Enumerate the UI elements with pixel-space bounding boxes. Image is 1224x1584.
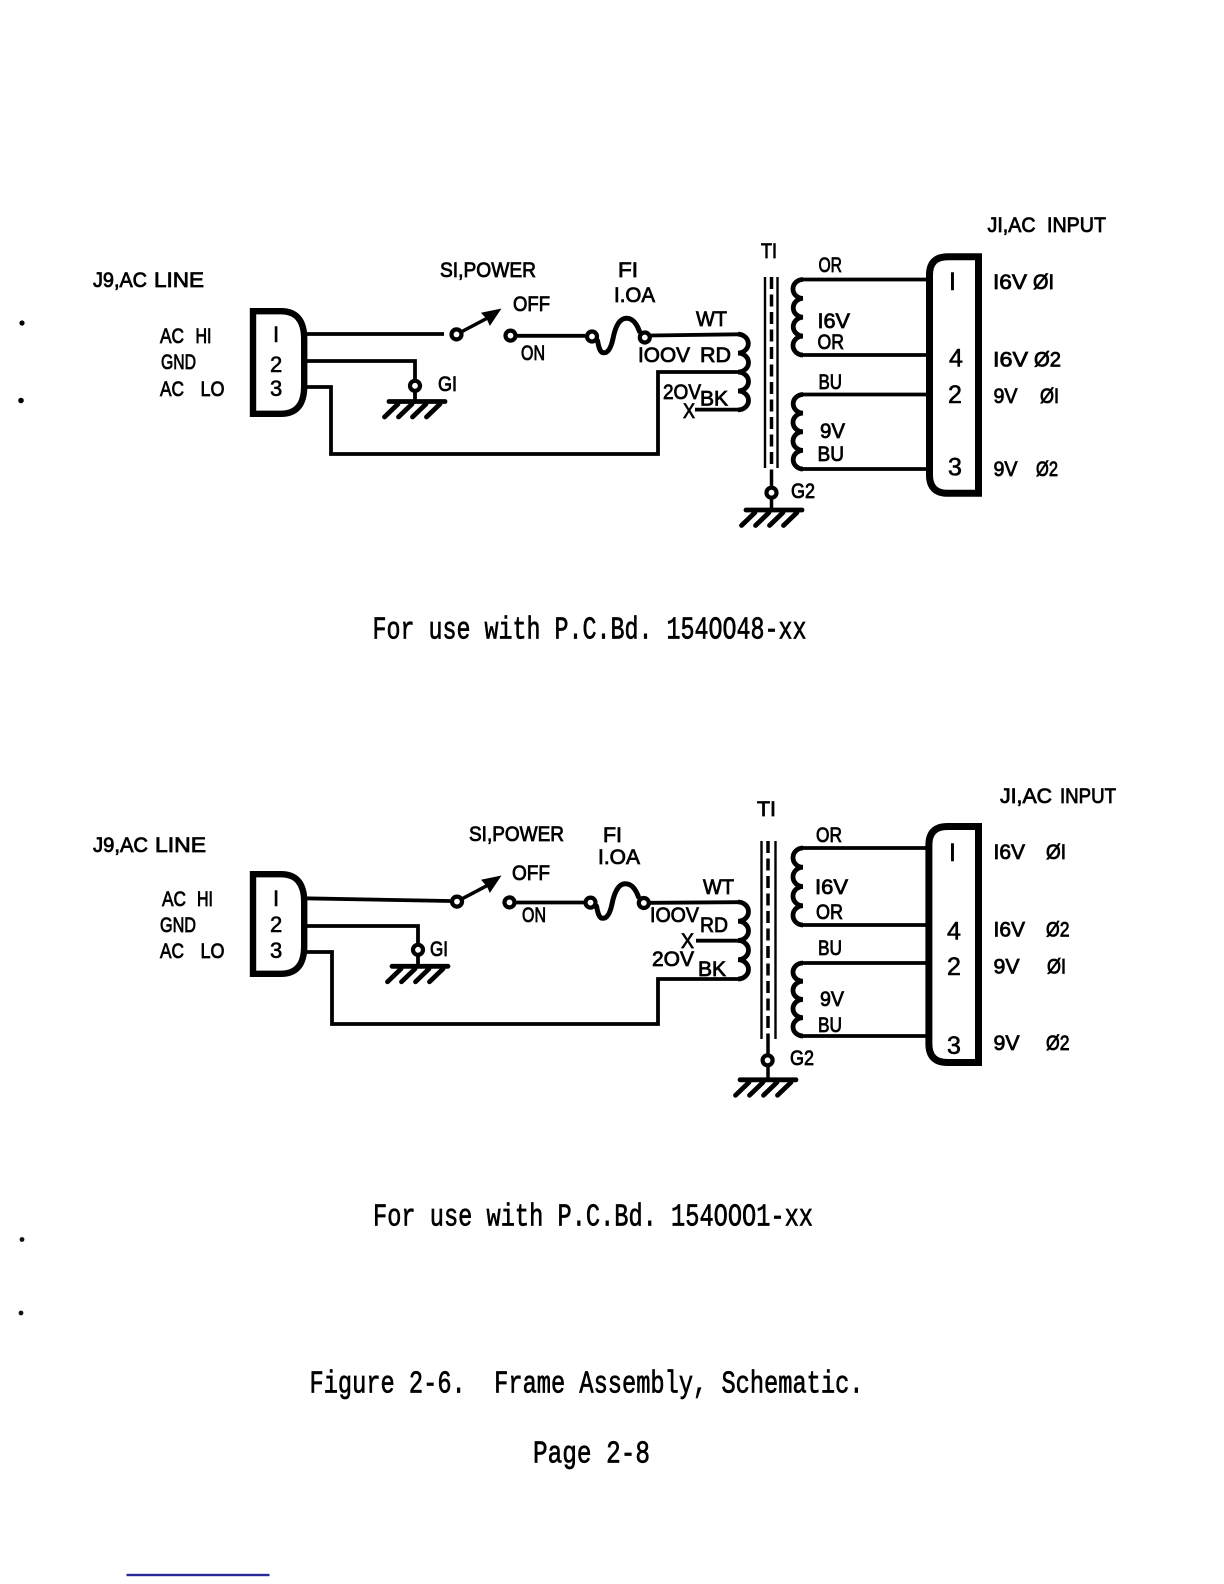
svg-text:9V: 9V	[994, 385, 1018, 408]
svg-text:I6V: I6V	[818, 310, 851, 333]
svg-text:I6V: I6V	[993, 271, 1027, 294]
svg-text:I.OA: I.OA	[598, 846, 640, 869]
svg-text:WT: WT	[703, 876, 734, 899]
svg-text:FI: FI	[618, 259, 638, 282]
svg-text:2: 2	[947, 953, 961, 981]
svg-text:AC: AC	[162, 888, 186, 911]
svg-text:Ø2: Ø2	[1046, 1032, 1070, 1055]
svg-text:ØI: ØI	[1047, 956, 1066, 979]
svg-text:I: I	[273, 322, 279, 347]
svg-text:J9,AC: J9,AC	[93, 269, 147, 292]
svg-text:3: 3	[270, 938, 282, 963]
svg-text:LO: LO	[201, 940, 225, 963]
svg-text:BU: BU	[818, 443, 845, 466]
svg-text:JI,AC: JI,AC	[1000, 785, 1052, 808]
svg-text:For use with P.C.Bd. 154OO48-x: For use with P.C.Bd. 154OO48-xx	[373, 614, 807, 649]
svg-text:9V: 9V	[994, 1032, 1020, 1055]
svg-text:I: I	[949, 839, 956, 867]
svg-text:INPUT: INPUT	[1060, 785, 1116, 808]
svg-text:Page 2-8: Page 2-8	[533, 1438, 650, 1473]
svg-text:4: 4	[949, 345, 963, 373]
svg-text:BU: BU	[818, 937, 842, 960]
svg-text:RD: RD	[700, 914, 728, 937]
svg-text:OR: OR	[818, 331, 845, 354]
svg-text:ØI: ØI	[1040, 385, 1059, 408]
svg-text:INPUT: INPUT	[1047, 214, 1106, 237]
svg-text:9V: 9V	[994, 956, 1020, 979]
svg-text:AC: AC	[160, 940, 184, 963]
svg-text:9V: 9V	[820, 988, 844, 1011]
svg-text:HI: HI	[197, 888, 213, 911]
svg-text:FI: FI	[603, 824, 622, 847]
svg-text:BK: BK	[698, 958, 726, 981]
svg-text:RD: RD	[700, 344, 731, 367]
svg-text:2: 2	[270, 912, 282, 937]
svg-text:GND: GND	[160, 914, 196, 937]
svg-text:2OV: 2OV	[652, 948, 694, 971]
svg-text:SI,POWER: SI,POWER	[440, 259, 536, 282]
svg-text:OR: OR	[816, 824, 842, 847]
svg-text:LINE: LINE	[155, 834, 206, 857]
svg-text:Figure 2-6. Frame Assembly, S: Figure 2-6. Frame Assembly, Schematic.	[310, 1368, 864, 1403]
svg-text:Ø2: Ø2	[1046, 919, 1070, 942]
svg-text:Ø2: Ø2	[1036, 458, 1058, 481]
svg-text:GI: GI	[438, 373, 457, 396]
svg-text:9V: 9V	[994, 458, 1018, 481]
svg-text:JI,AC: JI,AC	[988, 214, 1036, 237]
svg-text:ØI: ØI	[1033, 271, 1054, 294]
svg-text:IOOV: IOOV	[650, 904, 699, 927]
svg-text:I6V: I6V	[994, 841, 1026, 864]
svg-text:3: 3	[947, 1032, 961, 1060]
svg-text:OR: OR	[816, 901, 843, 924]
svg-text:SI,POWER: SI,POWER	[469, 823, 564, 846]
svg-text:IOOV: IOOV	[638, 344, 690, 367]
svg-text:LO: LO	[201, 378, 225, 401]
svg-text:ON: ON	[521, 342, 545, 365]
svg-text:BU: BU	[819, 371, 843, 394]
svg-text:2OV: 2OV	[663, 381, 701, 404]
svg-text:X: X	[683, 400, 695, 423]
svg-text:3: 3	[270, 376, 282, 401]
svg-text:4: 4	[947, 918, 961, 946]
svg-text:TI: TI	[757, 798, 776, 821]
svg-text:I: I	[273, 886, 279, 911]
svg-text:OR: OR	[819, 254, 843, 277]
svg-text:2: 2	[270, 352, 282, 377]
svg-text:GND: GND	[161, 351, 196, 374]
svg-text:AC: AC	[160, 325, 184, 348]
svg-text:I: I	[949, 268, 956, 296]
svg-text:2: 2	[948, 381, 962, 409]
svg-text:ON: ON	[522, 904, 546, 927]
svg-text:ØI: ØI	[1046, 841, 1066, 864]
svg-text:AC: AC	[160, 378, 184, 401]
svg-text:3: 3	[948, 454, 962, 482]
svg-text:Ø2: Ø2	[1034, 349, 1061, 372]
svg-text:OFF: OFF	[513, 293, 550, 316]
svg-text:HI: HI	[196, 325, 212, 348]
svg-text:9V: 9V	[820, 420, 845, 443]
svg-text:I6V: I6V	[994, 919, 1026, 942]
svg-text:BU: BU	[818, 1014, 842, 1037]
svg-text:J9,AC: J9,AC	[93, 834, 148, 857]
svg-text:TI: TI	[761, 240, 777, 263]
svg-text:GI: GI	[430, 938, 448, 961]
svg-text:LINE: LINE	[154, 269, 204, 292]
svg-text:I6V: I6V	[993, 349, 1028, 372]
svg-text:I6V: I6V	[815, 876, 848, 899]
svg-text:G2: G2	[790, 1047, 814, 1070]
svg-text:For use with P.C.Bd. 154OOO1-x: For use with P.C.Bd. 154OOO1-xx	[373, 1201, 813, 1236]
svg-text:WT: WT	[696, 308, 727, 331]
svg-text:G2: G2	[791, 480, 815, 503]
svg-text:I.OA: I.OA	[614, 284, 655, 307]
svg-text:BK: BK	[700, 388, 728, 411]
svg-text:OFF: OFF	[512, 862, 550, 885]
